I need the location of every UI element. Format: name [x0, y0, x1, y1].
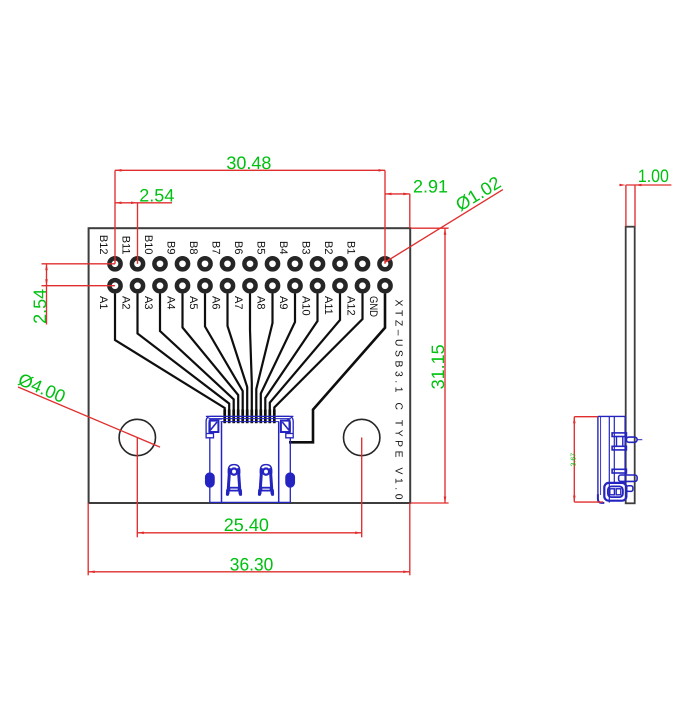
bottom solder leg (side view) — [604, 483, 626, 501]
connector right shield leg — [286, 473, 294, 487]
leader line for hole diameter 1.02 — [385, 190, 503, 263]
svg-text:B5: B5 — [254, 241, 266, 254]
svg-text:31.15: 31.15 — [428, 344, 448, 389]
svg-text:A2: A2 — [119, 296, 131, 309]
svg-text:2.54: 2.54 — [139, 185, 174, 205]
svg-text:A12: A12 — [344, 296, 356, 316]
connector body sides — [209, 438, 211, 503]
left mounting hole — [119, 419, 155, 455]
svg-text:A4: A4 — [164, 296, 176, 309]
svg-text:2.91: 2.91 — [413, 177, 448, 197]
svg-text:B4: B4 — [277, 241, 289, 254]
connector housing (side view) — [598, 415, 626, 417]
svg-text:25.40: 25.40 — [224, 515, 269, 535]
dimension 2.54 (left row pitch) — [42, 263, 116, 265]
svg-text:36.30: 36.30 — [230, 554, 273, 574]
right mounting hole — [344, 419, 380, 455]
svg-text:GND: GND — [367, 296, 379, 317]
upper press-fit pin (side view) — [612, 433, 626, 437]
pin holes rows B and A — [109, 258, 120, 269]
PCB edge (side view) — [626, 227, 635, 504]
svg-text:2.54: 2.54 — [30, 289, 50, 324]
svg-text:A8: A8 — [254, 296, 266, 309]
svg-text:B12: B12 — [97, 235, 109, 255]
svg-text:A3: A3 — [142, 296, 154, 309]
dimension 1.00 — [626, 184, 672, 186]
connector left A-shaped through-hole leg — [228, 465, 239, 474]
svg-text:B2: B2 — [322, 241, 334, 254]
svg-text:B7: B7 — [209, 241, 221, 254]
connector shield right corner clip — [277, 416, 293, 437]
svg-text:B11: B11 — [119, 236, 131, 255]
dimension 25.40 — [136, 438, 138, 538]
svg-text:A1: A1 — [97, 296, 109, 309]
connector shield left corner clip — [206, 416, 222, 437]
svg-text:B6: B6 — [232, 241, 244, 254]
connector left shield leg — [206, 473, 214, 487]
svg-text:3.67: 3.67 — [571, 453, 578, 467]
connector shield top band — [206, 415, 294, 417]
svg-text:30.48: 30.48 — [226, 153, 271, 173]
svg-text:A5: A5 — [187, 296, 199, 309]
svg-text:A7: A7 — [232, 296, 244, 309]
svg-text:B9: B9 — [164, 241, 176, 254]
svg-text:A9: A9 — [277, 296, 289, 309]
svg-text:A6: A6 — [209, 296, 221, 309]
dimension 2.91 — [385, 193, 410, 195]
dimension 31.15 — [411, 227, 449, 229]
svg-text:1.00: 1.00 — [638, 166, 669, 186]
connector right A-shaped through-hole leg — [260, 465, 271, 474]
dimension 36.30 — [87, 503, 89, 575]
svg-text:B10: B10 — [142, 235, 154, 255]
leader line for mounting hole diameter 4.00 — [18, 387, 160, 447]
svg-text:B8: B8 — [187, 241, 199, 254]
svg-text:B1: B1 — [344, 241, 356, 254]
dimension 30.48 — [115, 169, 385, 171]
svg-text:B3: B3 — [299, 241, 311, 254]
svg-text:A11: A11 — [322, 296, 334, 315]
dimension 2.54 (top pitch) — [115, 202, 172, 204]
svg-text:A10: A10 — [299, 296, 311, 316]
connector pin tick marks — [223, 410, 226, 424]
PCB board outline (front view) — [89, 228, 411, 503]
signal traces A1-A12 to connector pins — [115, 294, 225, 418]
middle mounting peg (side view) — [612, 469, 626, 473]
GND trace routed around connector right side — [289, 294, 385, 443]
dimension connector height (side view) — [573, 417, 575, 502]
